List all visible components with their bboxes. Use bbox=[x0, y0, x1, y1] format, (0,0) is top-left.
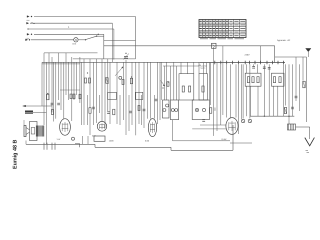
svg-text:220V: 220V bbox=[245, 54, 251, 57]
svg-text:1 W: 1 W bbox=[57, 138, 61, 141]
svg-text:0,4W: 0,4W bbox=[222, 138, 227, 141]
svg-text:Eumig 48 B: Eumig 48 B bbox=[12, 140, 18, 169]
svg-text:Apparate +42: Apparate +42 bbox=[277, 39, 291, 42]
svg-text:MW: MW bbox=[27, 19, 30, 22]
